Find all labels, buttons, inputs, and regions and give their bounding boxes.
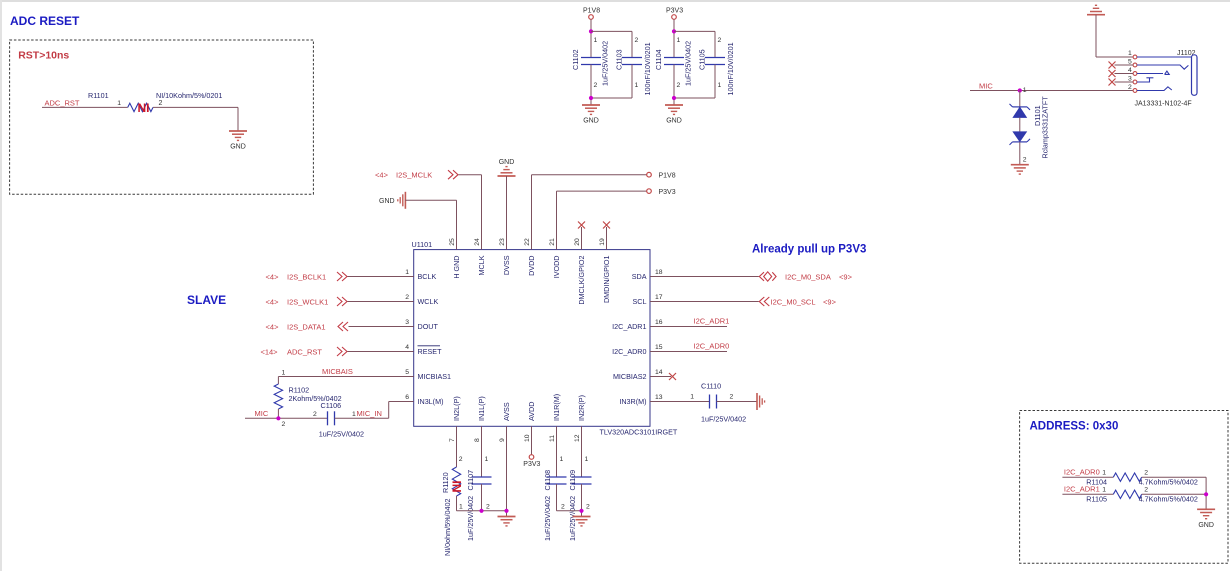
svg-text:BCLK: BCLK [418, 272, 437, 281]
svg-text:TLV320ADC3101IRGET: TLV320ADC3101IRGET [600, 427, 678, 436]
ground GND (address box) [1197, 508, 1215, 510]
wire ADC_RST to R1101 pin1 [42, 106, 128, 108]
wire pin 11 IN1R(M) to C1108 [556, 426, 558, 477]
svg-text:1: 1 [1102, 487, 1106, 494]
svg-text:<4>: <4> [266, 297, 280, 306]
resistor R1101 [128, 103, 153, 111]
svg-text:14: 14 [655, 369, 663, 376]
svg-text:GND: GND [666, 118, 682, 125]
wire pin 12 IN2R(P) to C1109 [581, 426, 583, 477]
svg-text:1: 1 [1128, 50, 1132, 57]
svg-text:GND: GND [1198, 522, 1214, 529]
svg-text:2: 2 [405, 294, 409, 301]
wire pin 10 AVDD to P3V3 [531, 426, 533, 454]
svg-text:I2C_ADR0: I2C_ADR0 [1064, 467, 1100, 476]
dashed frame RST box [10, 40, 314, 194]
svg-text:P1V8: P1V8 [583, 7, 600, 14]
wire pin 18 SDA to port [650, 276, 759, 278]
wire R1104 to ground node [1142, 476, 1206, 478]
wire ADC_RST to pin 4 [348, 351, 414, 353]
resistor R1120 [452, 467, 460, 496]
wire P3V3 to C1104 [673, 19, 675, 57]
svg-text:1uF/25V/0402: 1uF/25V/0402 [543, 496, 552, 541]
svg-text:DOUT: DOUT [418, 322, 439, 331]
svg-text:IN1L(P): IN1L(P) [477, 396, 486, 421]
wire P1V8 rail to C1103 [591, 30, 632, 32]
svg-text:9: 9 [499, 438, 506, 442]
ground (inverted, jack sleeve) [1087, 14, 1105, 16]
svg-text:GND: GND [379, 198, 395, 205]
no-connect X jack pin 4 [1109, 70, 1116, 77]
resistor R1105 [1113, 490, 1141, 498]
wire pin 21 IVODD to P3V3 [556, 191, 558, 250]
svg-text:I2C_M0_SCL: I2C_M0_SCL [771, 297, 816, 306]
svg-text:1: 1 [594, 37, 598, 44]
wire pin 15 stub [650, 351, 727, 353]
svg-text:SDA: SDA [632, 272, 647, 281]
wire C1106 to pin 6 IN3L(M) [335, 417, 389, 419]
wire ground to pin 25 H GND [405, 199, 456, 201]
svg-text:C1108: C1108 [543, 470, 552, 491]
wire pin 16 stub [650, 326, 727, 328]
svg-text:24: 24 [474, 238, 481, 246]
wire D1101 to ground [1019, 142, 1021, 165]
svg-text:1uF/25V/0402: 1uF/25V/0402 [319, 430, 364, 439]
svg-text:MIC_IN: MIC_IN [357, 409, 382, 418]
node junction C1107 / rail [479, 509, 483, 513]
jack body (sleeve outline) [1192, 55, 1198, 96]
svg-text:DMCLK/GPIO2: DMCLK/GPIO2 [577, 256, 586, 305]
svg-text:GND: GND [499, 159, 515, 166]
svg-text:U1101: U1101 [412, 240, 433, 249]
svg-text:R1105: R1105 [1086, 495, 1107, 504]
jack contact pin 3 (ring) [1137, 78, 1150, 82]
svg-text:2: 2 [313, 411, 317, 418]
svg-text:1: 1 [690, 394, 694, 401]
svg-text:1: 1 [405, 269, 409, 276]
svg-text:<9>: <9> [823, 297, 837, 306]
wire pin 17 SCL to port [650, 301, 759, 303]
svg-text:1: 1 [1102, 469, 1106, 476]
svg-text:R1101: R1101 [88, 91, 109, 100]
svg-text:11: 11 [549, 435, 556, 442]
svg-text:R1120: R1120 [441, 472, 450, 493]
wire I2C_ADR0 to R1104 [1062, 476, 1113, 478]
svg-text:7: 7 [449, 438, 456, 442]
svg-text:1: 1 [117, 100, 121, 107]
svg-text:IN2L(P): IN2L(P) [452, 396, 461, 421]
svg-text:NI/0ohm/5%/0402: NI/0ohm/5%/0402 [443, 498, 452, 556]
svg-text:2: 2 [677, 82, 681, 89]
jack contact pin 5 (switch) [1137, 65, 1189, 69]
svg-text:P3V3: P3V3 [666, 7, 683, 14]
capacitor C1107 [472, 476, 492, 478]
svg-text:IN2R(P): IN2R(P) [577, 395, 586, 421]
svg-text:2: 2 [459, 456, 463, 463]
svg-text:16: 16 [655, 319, 663, 326]
svg-text:2: 2 [635, 37, 639, 44]
svg-text:GND: GND [230, 144, 246, 151]
U1101 RESET overline [418, 345, 441, 347]
svg-text:100nF/10V/0201: 100nF/10V/0201 [726, 42, 735, 95]
svg-text:DMDIN/GPIO1: DMDIN/GPIO1 [602, 256, 611, 304]
wire C1109 to ground rail [581, 484, 583, 517]
svg-text:C1104: C1104 [654, 49, 663, 70]
svg-text:1: 1 [1023, 87, 1027, 94]
svg-text:2: 2 [1144, 469, 1148, 476]
svg-text:I2S_WCLK1: I2S_WCLK1 [287, 297, 328, 306]
svg-text:1: 1 [718, 82, 722, 89]
capacitor C1109 [572, 476, 592, 478]
svg-text:H GND: H GND [452, 256, 461, 279]
svg-text:I2S_MCLK: I2S_MCLK [396, 171, 432, 180]
node junction C1109 / rail [579, 509, 583, 513]
svg-text:1: 1 [282, 370, 286, 377]
port I2C_M0_SDA (bidirectional) [759, 272, 764, 281]
svg-text:NI: NI [138, 101, 150, 115]
svg-text:5: 5 [405, 369, 409, 376]
svg-text:RST>10ns: RST>10ns [18, 50, 69, 62]
no-connect X pin 20 DMCLK/GPIO2 [581, 227, 583, 250]
svg-text:2: 2 [159, 100, 163, 107]
ground rail (right, pins 11-12) [557, 510, 582, 512]
node junction MIC / R1102 [276, 416, 280, 420]
ground (below AVSS) [498, 516, 516, 518]
svg-text:I2S_DATA1: I2S_DATA1 [287, 322, 326, 331]
resistor R1104 [1113, 473, 1141, 481]
wire P3V3 rail to C1105 [674, 30, 715, 32]
svg-text:NI/10Kohm/5%/0201: NI/10Kohm/5%/0201 [156, 91, 222, 100]
svg-text:3: 3 [405, 319, 409, 326]
svg-text:MICBAIS: MICBAIS [322, 367, 353, 376]
svg-text:8: 8 [474, 438, 481, 442]
svg-text:I2C_ADR1: I2C_ADR1 [1064, 485, 1100, 494]
capacitor C1105 [705, 57, 725, 59]
node junction P1V8 rail [589, 29, 593, 33]
svg-text:2: 2 [1128, 84, 1132, 91]
ground GND (ADC RESET block) [229, 130, 247, 132]
svg-text:MICBIAS1: MICBIAS1 [418, 372, 452, 381]
wire I2C_ADR1 to R1105 [1062, 493, 1113, 495]
wire C1103 to ground rail [631, 65, 633, 99]
svg-text:1uF/25V/0402: 1uF/25V/0402 [601, 41, 610, 86]
wire C1105 to ground rail [714, 65, 716, 99]
svg-text:ADC_RST: ADC_RST [45, 98, 80, 107]
svg-text:1uF/25V/0402: 1uF/25V/0402 [684, 41, 693, 86]
svg-text:IN3L(M): IN3L(M) [418, 397, 444, 406]
wire I2S_BCLK1 to pin 1 [348, 276, 414, 278]
wire pin 13 IN3R(M) to C1110 [650, 401, 710, 403]
svg-text:2: 2 [1023, 157, 1027, 164]
svg-text:1uF/25V/0402: 1uF/25V/0402 [466, 496, 475, 541]
node junction R1104/R1105 [1204, 492, 1208, 496]
wire R1102 to MIC rail [277, 409, 279, 418]
svg-text:J1102: J1102 [1177, 50, 1196, 57]
no-connect X jack pin 5 [1109, 62, 1116, 69]
wire pin 23 DVSS to ground [506, 176, 508, 250]
svg-text:18: 18 [655, 269, 663, 276]
wire R1101 pin2 to ground [153, 106, 238, 108]
svg-text:22: 22 [524, 238, 531, 246]
ground (below pin 12 rail) [573, 516, 591, 518]
svg-text:1: 1 [459, 504, 463, 511]
svg-text:2: 2 [594, 82, 598, 89]
svg-text:25: 25 [449, 238, 456, 246]
no-connect X jack pin 3 [1109, 79, 1116, 86]
svg-text:19: 19 [599, 238, 606, 246]
svg-text:IN3R(M): IN3R(M) [619, 397, 646, 406]
svg-text:I2C_ADR0: I2C_ADR0 [694, 342, 730, 351]
svg-text:C1103: C1103 [615, 49, 624, 70]
svg-text:I2C_ADR0: I2C_ADR0 [612, 347, 646, 356]
power symbol P3V3 (AVDD) [529, 455, 534, 460]
IC U1101 TLV320ADC3101IRGET outline [414, 250, 650, 427]
capacitor C1106 [327, 411, 329, 425]
svg-text:2: 2 [486, 504, 490, 511]
svg-text:Already pull up P3V3: Already pull up P3V3 [752, 244, 866, 256]
svg-text:ADC_RST: ADC_RST [287, 347, 322, 356]
ground rail (left, pins 7-9) [457, 510, 507, 512]
svg-text:ADC RESET: ADC RESET [10, 14, 80, 28]
svg-text:SCL: SCL [633, 297, 647, 306]
svg-text:4.7Kohm/5%/0402: 4.7Kohm/5%/0402 [1139, 495, 1198, 504]
jack contact pin 2 (switch) [1137, 87, 1172, 91]
power symbol P3V3 (decoupling) [672, 15, 677, 20]
svg-text:AVDD: AVDD [527, 402, 536, 421]
wire I2S_DATA1 to pin 3 [349, 326, 414, 328]
port I2C_M0_SCL [759, 297, 764, 306]
ground (below D1101) [1011, 164, 1029, 166]
wire pin 22 DVDD to P1V8 [531, 175, 533, 250]
svg-text:C1105: C1105 [698, 49, 707, 70]
wire P1V8 to C1102 [590, 19, 592, 57]
svg-text:1: 1 [352, 411, 356, 418]
svg-text:I2C_ADR1: I2C_ADR1 [612, 322, 646, 331]
svg-text:1: 1 [485, 456, 489, 463]
svg-text:<9>: <9> [839, 272, 853, 281]
svg-text:IN1R(M): IN1R(M) [552, 394, 561, 421]
svg-text:P3V3: P3V3 [523, 461, 540, 468]
svg-text:15: 15 [655, 344, 663, 351]
wire pin 9 AVSS to ground [506, 426, 508, 516]
node junction C1102/C1103 ground [589, 96, 593, 100]
svg-text:2: 2 [561, 504, 565, 511]
wire pin 7 IN2L(P) to R1120 [456, 426, 458, 467]
svg-text:MICBIAS2: MICBIAS2 [613, 372, 647, 381]
svg-text:100nF/10V/0201: 100nF/10V/0201 [643, 42, 652, 95]
svg-text:JA13331-N102-4F: JA13331-N102-4F [1135, 100, 1192, 107]
svg-text:1: 1 [585, 456, 589, 463]
svg-text:MCLK: MCLK [477, 255, 486, 275]
wire R1120 to ground rail [456, 496, 458, 511]
svg-text:2: 2 [282, 421, 286, 428]
wire C1102 to ground rail [590, 65, 592, 106]
wire I2S_WCLK1 to pin 2 [348, 301, 414, 303]
wire MIC to jack pin 2 [970, 90, 1133, 92]
svg-text:I2S_BCLK1: I2S_BCLK1 [287, 272, 326, 281]
svg-text:2: 2 [586, 504, 590, 511]
svg-text:1: 1 [635, 82, 639, 89]
wire C1107 to ground rail [481, 484, 483, 511]
resistor R1102 [274, 384, 282, 409]
svg-text:IVODD: IVODD [552, 256, 561, 279]
svg-text:<4>: <4> [266, 322, 280, 331]
svg-text:WCLK: WCLK [418, 297, 439, 306]
svg-text:13: 13 [655, 394, 663, 401]
svg-text:4: 4 [405, 344, 409, 351]
svg-text:<14>: <14> [260, 347, 278, 356]
svg-text:2: 2 [730, 394, 734, 401]
capacitor C1104 [664, 57, 684, 59]
svg-text:Rclamp3331ZATFT: Rclamp3331ZATFT [1041, 96, 1050, 159]
wire C1110 to ground [717, 401, 758, 403]
wire R1105 to ground node [1142, 493, 1206, 495]
svg-text:MIC: MIC [979, 81, 993, 90]
svg-text:C1110: C1110 [701, 382, 721, 391]
svg-text:NI: NI [450, 481, 464, 493]
node junction C1104/C1105 ground [672, 96, 676, 100]
capacitor C1103 [622, 57, 642, 59]
svg-text:2: 2 [1144, 487, 1148, 494]
wire C1104 to ground rail [673, 65, 675, 106]
svg-text:20: 20 [574, 238, 581, 246]
svg-text:P1V8: P1V8 [659, 173, 676, 180]
wire pin 8 IN1L(P) to C1107 [481, 426, 483, 477]
svg-text:RESET: RESET [418, 347, 443, 356]
svg-text:C1106: C1106 [321, 401, 342, 410]
svg-text:1: 1 [560, 456, 564, 463]
svg-text:1: 1 [677, 37, 681, 44]
wire ground to jack pin 1 [1095, 15, 1097, 57]
svg-text:C1109: C1109 [568, 470, 577, 491]
wire MICBIAS1 pin 5 to R1102 [278, 376, 413, 378]
svg-text:MIC: MIC [255, 409, 269, 418]
svg-text:21: 21 [549, 238, 556, 246]
node junction AVSS / rail [504, 509, 508, 513]
svg-text:23: 23 [499, 238, 506, 246]
svg-text:1uF/25V/0402: 1uF/25V/0402 [701, 414, 746, 423]
svg-text:10: 10 [524, 434, 531, 442]
svg-text:GND: GND [583, 118, 599, 125]
node junction P3V3 rail [672, 29, 676, 33]
svg-text:1uF/25V/0402: 1uF/25V/0402 [568, 496, 577, 541]
ground (sideways, right of C1110) [756, 393, 758, 410]
capacitor C1108 [547, 476, 567, 478]
svg-text:P3V3: P3V3 [659, 189, 676, 196]
svg-text:C1102: C1102 [571, 49, 580, 70]
svg-text:C1107: C1107 [466, 470, 475, 491]
dashed frame ADDRESS box [1020, 411, 1228, 564]
svg-text:<4>: <4> [266, 272, 280, 281]
svg-text:SLAVE: SLAVE [187, 293, 226, 307]
TVS diode D1101 Rclamp3331ZATFT [1019, 91, 1021, 107]
jack contact pin 1 (sleeve) [1137, 56, 1192, 58]
power symbol P3V3 (IVODD) [647, 189, 652, 194]
svg-text:6: 6 [405, 394, 409, 401]
svg-text:<4>: <4> [375, 171, 389, 180]
wire C1108 to ground rail [556, 484, 558, 511]
svg-text:I2C_M0_SDA: I2C_M0_SDA [785, 272, 831, 281]
svg-text:DVDD: DVDD [527, 256, 536, 276]
no-connect X pin 14 MICBIAS2 [650, 376, 671, 378]
svg-text:12: 12 [574, 434, 581, 442]
wire MIC to C1106 [245, 417, 328, 419]
svg-text:ADDRESS: 0x30: ADDRESS: 0x30 [1030, 421, 1119, 433]
svg-text:2: 2 [718, 37, 722, 44]
jack contact pin 4 (tip) [1137, 73, 1163, 75]
svg-text:I2C_ADR1: I2C_ADR1 [694, 317, 730, 326]
ground GND (P3V3 decoupling) [665, 104, 683, 106]
power symbol P1V8 (DVDD) [647, 172, 652, 177]
node junction MIC / D1101 [1018, 88, 1022, 92]
wire I2S_MCLK to pin 24 MCLK [459, 174, 482, 176]
power symbol P1V8 [589, 15, 594, 20]
no-connect X pin 19 DMDIN/GPIO1 [606, 227, 608, 250]
svg-text:DVSS: DVSS [502, 255, 511, 275]
ground GND (P1V8 decoupling) [582, 104, 600, 106]
capacitor C1110 [709, 395, 711, 409]
svg-text:17: 17 [655, 294, 663, 301]
svg-text:4.7Kohm/5%/0402: 4.7Kohm/5%/0402 [1139, 478, 1198, 487]
svg-text:AVSS: AVSS [502, 402, 511, 421]
capacitor C1102 [581, 57, 601, 59]
